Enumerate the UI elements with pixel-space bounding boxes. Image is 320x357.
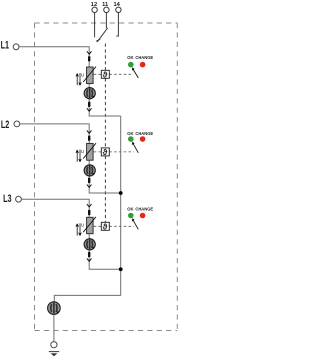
module 3 down arrow [79, 223, 82, 235]
module 2 varistor diagonal [83, 143, 96, 158]
svg-text:OK: OK [127, 207, 133, 212]
module 1 surge arrow top (chevron) [87, 51, 92, 54]
module 3 varistor box MOV [87, 217, 94, 233]
svg-text:CHANGE: CHANGE [135, 207, 153, 212]
module 2 thermal disconnector box [101, 148, 109, 156]
svg-text:OK: OK [127, 55, 133, 60]
module 1 spark gap circle [84, 88, 95, 99]
svg-text:OK: OK [127, 131, 133, 136]
module 2 down arrow [79, 150, 82, 162]
svg-text:U: U [81, 72, 84, 77]
module 3 spark gap circle [84, 239, 95, 250]
L2 wire to module 2 and down to bus [20, 124, 121, 193]
wire spark gap to earth terminal [53, 314, 55, 341]
module 1 indicator arrow [132, 67, 138, 78]
svg-text:U: U [81, 223, 84, 228]
svg-text:U: U [81, 149, 84, 154]
module 3 surge arrow top (chevron) [87, 204, 92, 207]
common earth bus wire [54, 116, 120, 302]
module 1 surge arrow bottom (bar) [88, 102, 90, 107]
module 3 surge arrow top (bar) [88, 210, 90, 215]
module 2 surge arrow bottom (chevron) [87, 185, 92, 188]
module 1 green LED [128, 62, 134, 68]
module 1 red LED [140, 62, 146, 68]
module 3 varistor diagonal [83, 217, 96, 232]
svg-text:L3: L3 [3, 193, 11, 205]
junction dot bus/module 2 [119, 191, 123, 195]
N-PE spark gap circle [48, 302, 61, 315]
enclosure dashed border bottom [35, 330, 178, 332]
L1 terminal circle [13, 44, 19, 50]
svg-text:ϑ: ϑ [103, 222, 108, 231]
terminal 12 circle [92, 7, 97, 12]
module 2 up arrow [76, 150, 79, 162]
module 1 varistor diagonal [83, 67, 96, 82]
module 3 green LED [128, 213, 134, 219]
L3 terminal circle [16, 196, 22, 202]
module 3 thermal disconnector box [101, 222, 109, 230]
module 2 spark gap circle [84, 165, 95, 176]
terminal 14 lead wire with contact seat [116, 13, 118, 37]
svg-text:CHANGE: CHANGE [135, 55, 153, 60]
module 2 surge arrow bottom (bar) [88, 178, 90, 183]
module 2 red LED [140, 136, 146, 142]
junction dot bus/module 3 [119, 267, 123, 271]
enclosure dashed border right [176, 23, 178, 331]
module 1 thermal disconnector dashed signal line [94, 73, 133, 75]
module 2 surge arrow top (chevron) [87, 130, 92, 133]
module 2 surge arrow top (bar) [88, 136, 90, 141]
module 3 red LED [140, 213, 146, 219]
earth symbol [49, 352, 59, 357]
module 2 indicator arrow [132, 142, 138, 153]
terminal 11 lead wire [105, 13, 107, 29]
changeover contact tick [96, 39, 100, 41]
module 1 down arrow [79, 73, 82, 85]
svg-text:L1: L1 [1, 40, 9, 52]
module 1 thermal disconnector box [101, 70, 109, 78]
module 2 thermal disconnector dashed signal line [94, 151, 134, 153]
module 1 varistor box MOV [87, 67, 94, 84]
mechanical linkage dashed line (switch to disconnectors) [104, 44, 106, 223]
svg-text:L2: L2 [1, 119, 9, 131]
L1 wire to module 1 and down to bus [19, 47, 121, 116]
earth terminal circle [51, 342, 57, 348]
L2 terminal circle [14, 121, 20, 127]
svg-text:ϑ: ϑ [103, 70, 108, 79]
enclosure dashed border left [34, 23, 36, 331]
terminal 12 lead wire [94, 13, 96, 38]
module 1 surge arrow top (bar) [88, 56, 90, 61]
module 3 thermal disconnector dashed signal line [94, 225, 134, 227]
svg-text:CHANGE: CHANGE [135, 131, 153, 136]
module 1 up arrow [76, 74, 79, 86]
module 3 up arrow [76, 224, 79, 236]
module 3 indicator arrow [132, 218, 138, 229]
svg-text:ϑ: ϑ [103, 148, 108, 157]
enclosure dashed border top [35, 22, 178, 24]
module 3 surge arrow bottom (bar) [88, 252, 90, 257]
L3 wire to module 3 and down to bus [21, 199, 120, 269]
module 2 varistor box MOV [87, 143, 94, 160]
module 2 green LED [128, 136, 134, 142]
module 3 surge arrow bottom (chevron) [87, 258, 92, 261]
terminal 11 circle [104, 7, 109, 12]
changeover contact blade [97, 28, 107, 42]
terminal 14 circle [116, 7, 121, 12]
module 1 surge arrow bottom (chevron) [87, 108, 92, 111]
